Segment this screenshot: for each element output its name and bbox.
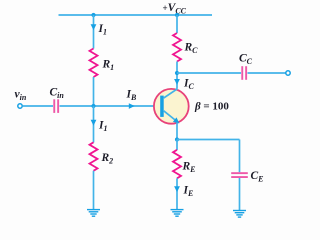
- wire: RC bottom to collector node: [176, 62, 178, 89]
- node: rail / R1 branch junction: [91, 13, 95, 17]
- wire: +Vcc supply rail: [59, 14, 213, 16]
- wire: emitter node down to RE: [176, 140, 178, 151]
- input terminal (open circle): [18, 104, 22, 108]
- wire: collector node to CC: [177, 72, 241, 74]
- resistor RE: [173, 150, 181, 179]
- wire: rail down to R1 top: [93, 15, 95, 49]
- current arrow IB: [129, 103, 135, 109]
- wire: rail down to RC: [176, 15, 178, 33]
- svg-text:β = 100: β = 100: [194, 101, 229, 113]
- capacitor Cin: [53, 99, 55, 113]
- svg-text:Cin: Cin: [50, 87, 65, 101]
- wire: CE branch down to capacitor: [239, 140, 241, 173]
- current arrow I1 (lower): [91, 120, 97, 126]
- wire: Cin to transistor base: [60, 105, 162, 107]
- current arrow IC: [174, 79, 180, 85]
- svg-text:IE: IE: [183, 185, 194, 199]
- svg-text:CC: CC: [239, 53, 253, 67]
- svg-text:CE: CE: [251, 170, 264, 184]
- svg-text:I1: I1: [98, 120, 107, 134]
- svg-text:R2: R2: [101, 152, 114, 166]
- node: collector / CC junction: [175, 71, 179, 75]
- svg-text:RC: RC: [184, 42, 199, 56]
- svg-text:RE: RE: [182, 161, 196, 175]
- transistor base bar: [160, 96, 164, 117]
- node: emitter / CE junction: [175, 137, 179, 141]
- wire: input terminal to Cin: [22, 105, 53, 107]
- wire: R1 bottom to base-node: [93, 77, 95, 106]
- node: rail / RC branch junction: [175, 13, 179, 17]
- resistor R1: [90, 49, 98, 77]
- ground (below RE): [171, 209, 184, 217]
- transistor Q1 (circle body): [154, 89, 189, 124]
- node: base-line / R1-R2 junction: [91, 104, 95, 108]
- svg-text:+VCC: +VCC: [163, 2, 187, 15]
- wire: emitter down to emitter node: [176, 123, 178, 140]
- wire: R2 to ground: [93, 171, 95, 210]
- wire: CE to ground: [239, 178, 241, 210]
- wire: junction down to R2: [93, 106, 95, 143]
- transistor emitter lead (diagonal): [164, 111, 177, 122]
- svg-text:I1: I1: [98, 23, 107, 37]
- ground (below R2): [87, 209, 100, 217]
- resistor R2: [90, 142, 98, 171]
- resistor RC: [173, 33, 181, 61]
- current arrow I1 (upper): [91, 24, 97, 30]
- ground (below CE): [233, 210, 246, 218]
- svg-text:vin: vin: [15, 89, 27, 102]
- wire: CC to output terminal: [248, 72, 286, 74]
- svg-text:R1: R1: [102, 59, 115, 73]
- output terminal (open circle): [286, 71, 290, 75]
- current arrow IE: [174, 186, 180, 192]
- transistor collector lead (diagonal): [164, 89, 178, 98]
- capacitor CE: [231, 172, 248, 174]
- transistor emitter arrowhead: [173, 117, 180, 123]
- capacitor CC: [241, 66, 243, 80]
- svg-text:IB: IB: [126, 89, 137, 103]
- svg-text:IC: IC: [183, 78, 194, 92]
- wire: RE to ground: [176, 178, 178, 209]
- wire: emitter node to CE branch (horizontal): [177, 139, 240, 141]
